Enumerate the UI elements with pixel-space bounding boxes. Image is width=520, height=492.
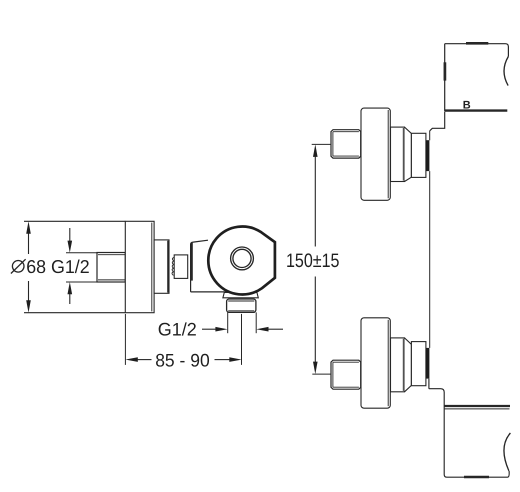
- right view top: cylinder 2: [411, 133, 426, 177]
- right view top: thick top segment: [466, 42, 488, 45]
- left view: valve body thick edge: [191, 243, 193, 281]
- dimension G1/2 nut: lower arrowhead (up): [68, 282, 73, 294]
- left view: outlet nut: [227, 299, 256, 312]
- dimension G1/2 nut: upper arrow shaft: [69, 228, 71, 242]
- dimension 150±15: vertical dimension line: [314, 155, 316, 363]
- left view: wall rosette: [125, 221, 154, 312]
- right view top: cylinder 1: [391, 127, 405, 181]
- dimension Ø68: vertical dimension line: [28, 229, 30, 306]
- dimension G1/2 outlet: left line: [202, 328, 216, 330]
- right view top: body block top edge: [445, 44, 509, 57]
- dimension 85-90: left line: [138, 359, 152, 361]
- dimension 150±15: arrowhead down: [313, 362, 318, 375]
- svg-text:B: B: [463, 100, 471, 112]
- right view top: left edge mark: [444, 62, 447, 80]
- left view: outlet thread extension right: [255, 312, 257, 333]
- dimension G1/2 nut: top tick: [66, 252, 97, 254]
- right view top: right edge arc: [504, 56, 508, 85]
- dimension G1/2 outlet: right arrowhead (points right): [215, 327, 227, 332]
- dimension G1/2 nut: upper arrowhead (down): [68, 241, 73, 253]
- dimension Ø68: bottom extension line: [24, 312, 125, 314]
- right view bottom: cylinder 1: [391, 338, 405, 392]
- right view bottom: cone step: [405, 338, 412, 392]
- svg-text:68 G1/2: 68 G1/2: [26, 256, 89, 277]
- right view bottom: right edge arc: [504, 433, 510, 471]
- right view bottom: body step: [429, 379, 509, 478]
- dimension Ø68: arrowhead down: [26, 300, 31, 313]
- right view bottom: block top thick edge: [445, 405, 511, 407]
- dimension 85-90: right arrowhead: [229, 357, 241, 362]
- svg-text:150±15: 150±15: [286, 250, 340, 272]
- left view: knob hub outer ring: [231, 247, 254, 270]
- dimension G1/2 outlet: right line: [269, 328, 284, 330]
- dimension 150±15: bottom extension line: [312, 373, 331, 375]
- right view bottom: cylinder 2: [411, 342, 426, 386]
- dimension 85-90: left extension line: [124, 314, 126, 365]
- right view bottom: block top thin edge: [445, 408, 510, 410]
- left view: outlet thread extension left: [227, 312, 229, 333]
- right view top: contact gasket bar: [426, 140, 430, 171]
- dimension 85-90: right line: [215, 359, 230, 361]
- left view: threaded nipple: [174, 255, 188, 279]
- svg-text:85 - 90: 85 - 90: [155, 351, 210, 371]
- left view: valve body: [191, 240, 236, 292]
- left view: outlet flange: [223, 292, 258, 297]
- dimension G1/2 nut: lower arrow shaft: [69, 294, 71, 305]
- dimension 150±15: top extension line: [312, 143, 331, 145]
- dimension G1/2 outlet: left arrowhead (points left): [256, 327, 268, 332]
- dimension 85-90: left arrowhead: [125, 357, 137, 362]
- right view top: block bottom thick edge: [445, 109, 508, 111]
- left view: knob hub inner ring: [233, 249, 251, 267]
- left view: thread profile: [172, 257, 174, 275]
- right view: body face line: [429, 131, 431, 348]
- right view bottom: contact gasket bar: [426, 348, 430, 379]
- right view top: body step: [430, 112, 445, 131]
- left view: escutcheon cylinder: [154, 240, 169, 293]
- right view top: wall rosette: [361, 108, 390, 200]
- right view bottom: union nut: [331, 360, 361, 389]
- dimension Ø68: arrowhead up: [26, 221, 31, 234]
- left view: outlet centre line: [241, 314, 243, 365]
- right view bottom: bottom thick segment: [464, 476, 489, 479]
- right view top: union nut: [331, 130, 361, 158]
- dimension G1/2 nut: bottom tick: [66, 281, 97, 283]
- left view: union nut: [97, 253, 125, 283]
- svg-text:G1/2: G1/2: [158, 319, 197, 339]
- right view bottom: wall rosette: [361, 318, 390, 408]
- dimension 150±15: arrowhead up: [313, 144, 318, 157]
- dimension Ø68: top extension line: [24, 220, 125, 222]
- label Ø68 G1/2: [12, 261, 24, 273]
- left view: thermostat knob: [208, 226, 275, 294]
- right view top: cone step: [405, 127, 412, 181]
- right view top: body block left edge: [444, 44, 446, 111]
